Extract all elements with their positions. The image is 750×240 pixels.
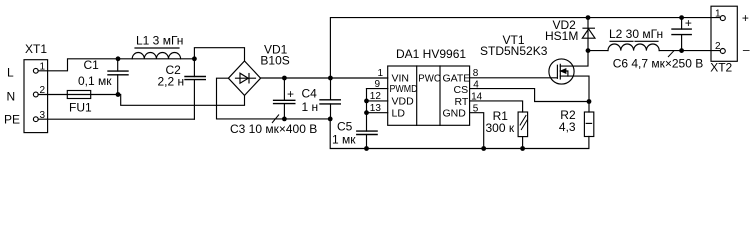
svg-text:2: 2 xyxy=(715,41,721,52)
svg-text:2,2 н: 2,2 н xyxy=(158,74,185,88)
svg-text:XT1: XT1 xyxy=(25,42,47,56)
svg-text:13: 13 xyxy=(370,103,382,114)
svg-text:PE: PE xyxy=(4,113,20,127)
svg-text:300 к: 300 к xyxy=(486,121,515,135)
svg-text:14: 14 xyxy=(471,92,483,103)
svg-text:8: 8 xyxy=(473,68,479,79)
svg-text:+: + xyxy=(742,11,749,25)
svg-text:1 мк: 1 мк xyxy=(332,132,356,146)
svg-text:N: N xyxy=(7,90,16,104)
svg-text:+: + xyxy=(287,87,294,101)
svg-text:GATE: GATE xyxy=(443,72,471,84)
svg-text:C6 4,7 мк×250 В: C6 4,7 мк×250 В xyxy=(613,57,704,71)
svg-text:PWC: PWC xyxy=(418,72,441,84)
svg-text:5: 5 xyxy=(473,103,479,114)
svg-text:L2 30 мГн: L2 30 мГн xyxy=(609,27,663,41)
svg-text:C4: C4 xyxy=(302,87,318,101)
svg-text:DA1 HV9961: DA1 HV9961 xyxy=(396,47,466,61)
svg-text:HS1M: HS1M xyxy=(545,29,578,43)
svg-text:RT: RT xyxy=(455,96,469,108)
svg-text:XT2: XT2 xyxy=(710,61,732,75)
svg-text:1: 1 xyxy=(40,62,46,73)
svg-text:+: + xyxy=(685,16,692,30)
svg-text:12: 12 xyxy=(370,91,382,102)
svg-text:STD5N52K3: STD5N52K3 xyxy=(480,44,548,58)
svg-text:9: 9 xyxy=(375,79,381,90)
svg-text:CS: CS xyxy=(454,84,469,96)
svg-text:4,3: 4,3 xyxy=(559,120,576,134)
svg-text:–: – xyxy=(743,43,750,57)
svg-text:2: 2 xyxy=(40,85,46,96)
svg-text:C1: C1 xyxy=(84,58,100,72)
svg-text:VDD: VDD xyxy=(392,96,415,108)
svg-text:1: 1 xyxy=(715,8,721,19)
svg-text:1 н: 1 н xyxy=(302,100,319,114)
svg-text:1: 1 xyxy=(378,68,384,79)
svg-text:L1 3 мГн: L1 3 мГн xyxy=(136,33,183,47)
svg-text:FU1: FU1 xyxy=(69,101,92,115)
svg-text:PWMD: PWMD xyxy=(390,83,418,95)
svg-text:GND: GND xyxy=(443,108,467,120)
svg-text:3: 3 xyxy=(40,110,46,121)
svg-text:B10S: B10S xyxy=(260,54,289,68)
svg-text:LD: LD xyxy=(392,107,406,119)
svg-text:С3 10 мк×400 В: С3 10 мк×400 В xyxy=(230,122,317,136)
svg-text:4: 4 xyxy=(473,80,479,91)
svg-text:L: L xyxy=(7,66,14,80)
svg-text:C5: C5 xyxy=(337,119,353,133)
svg-text:0,1 мк: 0,1 мк xyxy=(78,74,112,88)
